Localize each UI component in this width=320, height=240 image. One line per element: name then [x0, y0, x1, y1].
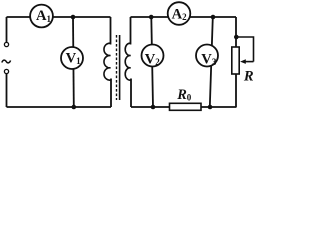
wiper arrowhead [240, 59, 246, 64]
svg-text:R: R [243, 68, 254, 84]
ammeter A1 [30, 5, 53, 28]
wire: transformer primary bottom lead [110, 79, 112, 108]
node: bottom wire / V3 junction [208, 105, 213, 110]
rheostat R body [232, 47, 239, 74]
node: top wire / V3 junction [211, 15, 216, 20]
resistor R0 body [170, 103, 202, 110]
voltmeter V1 [61, 47, 83, 69]
AC source tilde [2, 60, 11, 63]
voltmeter V3 [196, 45, 218, 67]
wire: primary loop left bottom segment [6, 74, 8, 107]
wire: primary loop top (y=17, x 6.5..110.5) [7, 16, 111, 18]
wire: transformer secondary bottom lead [130, 79, 132, 108]
wire: V1 branch vertical [72, 17, 75, 107]
wire: secondary loop bottom (y=107) [131, 106, 237, 108]
node: bottom wire / V2 junction [151, 105, 156, 110]
wire: V2 branch vertical [151, 17, 153, 107]
wire: transformer primary top lead [110, 17, 112, 45]
wire: V3 branch vertical [210, 17, 213, 107]
ammeter A2 [168, 2, 191, 25]
wire: primary loop left top segment [6, 17, 8, 42]
AC source terminal (top) [4, 42, 8, 46]
node: rheostat top junction [234, 35, 239, 40]
wire: transformer secondary top lead [130, 17, 132, 45]
transformer core (left bar, dashed) [116, 35, 118, 100]
wire: primary loop bottom (y=107) [7, 106, 112, 108]
node: bottom wire / V1 junction [72, 105, 77, 110]
AC source terminal (bottom) [4, 69, 8, 73]
wire: rheostat bottom lead [235, 74, 237, 107]
node: top wire / V2 junction [149, 15, 154, 20]
transformer primary coil [104, 43, 111, 80]
node: top wire / V1 junction [71, 15, 76, 20]
wire: right side vertical into rheostat [235, 17, 237, 47]
wiper arrow shaft [245, 61, 254, 63]
transformer core (right bar) [119, 35, 121, 100]
wire: wiper branch (right and down) [236, 37, 253, 62]
transformer secondary coil [125, 43, 130, 80]
voltmeter V2 [142, 45, 164, 67]
wire: secondary loop top (y=17, x 130.5..236) [131, 16, 237, 18]
